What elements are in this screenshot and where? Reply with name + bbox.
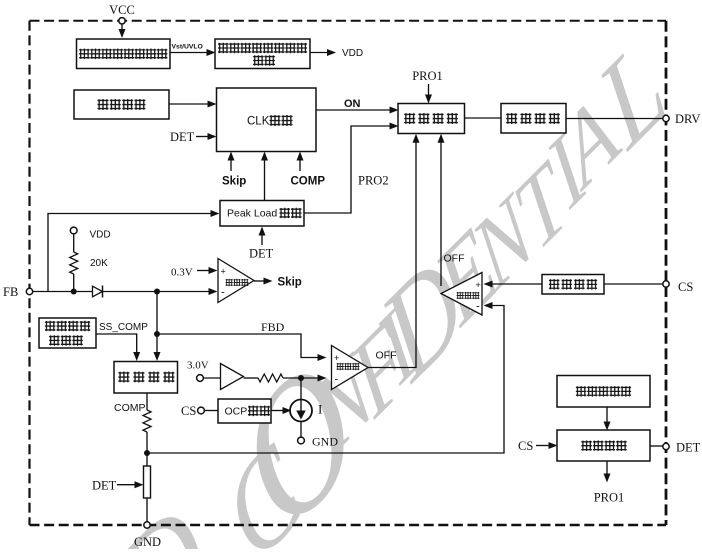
svg-text:VDD: VDD bbox=[90, 230, 111, 241]
svg-text:SS_COMP: SS_COMP bbox=[99, 322, 148, 333]
svg-text:OCP: OCP bbox=[225, 406, 248, 418]
svg-text:DET: DET bbox=[92, 479, 117, 493]
svg-text:VDD: VDD bbox=[342, 48, 363, 59]
svg-text:PRO1: PRO1 bbox=[594, 491, 625, 505]
svg-text:+: + bbox=[334, 353, 339, 363]
svg-text:+: + bbox=[221, 267, 226, 277]
svg-text:DET: DET bbox=[249, 247, 274, 261]
svg-text:GND: GND bbox=[312, 435, 338, 449]
svg-text:OFF: OFF bbox=[376, 350, 397, 362]
svg-text:CS: CS bbox=[518, 439, 533, 453]
svg-text:COMP: COMP bbox=[114, 402, 146, 414]
svg-text:I: I bbox=[318, 402, 322, 417]
svg-text:+: + bbox=[476, 280, 481, 290]
svg-text:-: - bbox=[221, 287, 225, 299]
svg-text:0.3V: 0.3V bbox=[171, 267, 193, 279]
svg-text:FB: FB bbox=[3, 285, 18, 299]
svg-text:OFF: OFF bbox=[444, 253, 465, 265]
svg-text:-: - bbox=[476, 301, 480, 313]
svg-text:Peak Load: Peak Load bbox=[227, 208, 277, 220]
svg-text:DET: DET bbox=[170, 130, 195, 144]
svg-text:DET: DET bbox=[676, 441, 701, 455]
svg-text:FBD: FBD bbox=[261, 320, 285, 334]
svg-text:COMP: COMP bbox=[291, 176, 326, 188]
svg-text:CLK: CLK bbox=[247, 116, 270, 128]
svg-text:3.0V: 3.0V bbox=[187, 360, 209, 372]
svg-text:Skip: Skip bbox=[278, 277, 302, 289]
svg-text:20K: 20K bbox=[90, 258, 108, 269]
svg-text:PRO2: PRO2 bbox=[358, 174, 389, 188]
svg-text:CS: CS bbox=[181, 404, 196, 418]
svg-text:ON: ON bbox=[344, 98, 361, 110]
svg-text:Skip: Skip bbox=[222, 176, 246, 188]
svg-text:DRV: DRV bbox=[675, 112, 700, 126]
svg-text:PRO1: PRO1 bbox=[412, 69, 443, 83]
svg-text:Vst/UVLO: Vst/UVLO bbox=[172, 44, 203, 51]
svg-text:GND: GND bbox=[134, 535, 161, 549]
svg-text:-: - bbox=[335, 374, 339, 386]
svg-text:VCC: VCC bbox=[109, 3, 135, 17]
svg-text:CS: CS bbox=[678, 280, 693, 294]
